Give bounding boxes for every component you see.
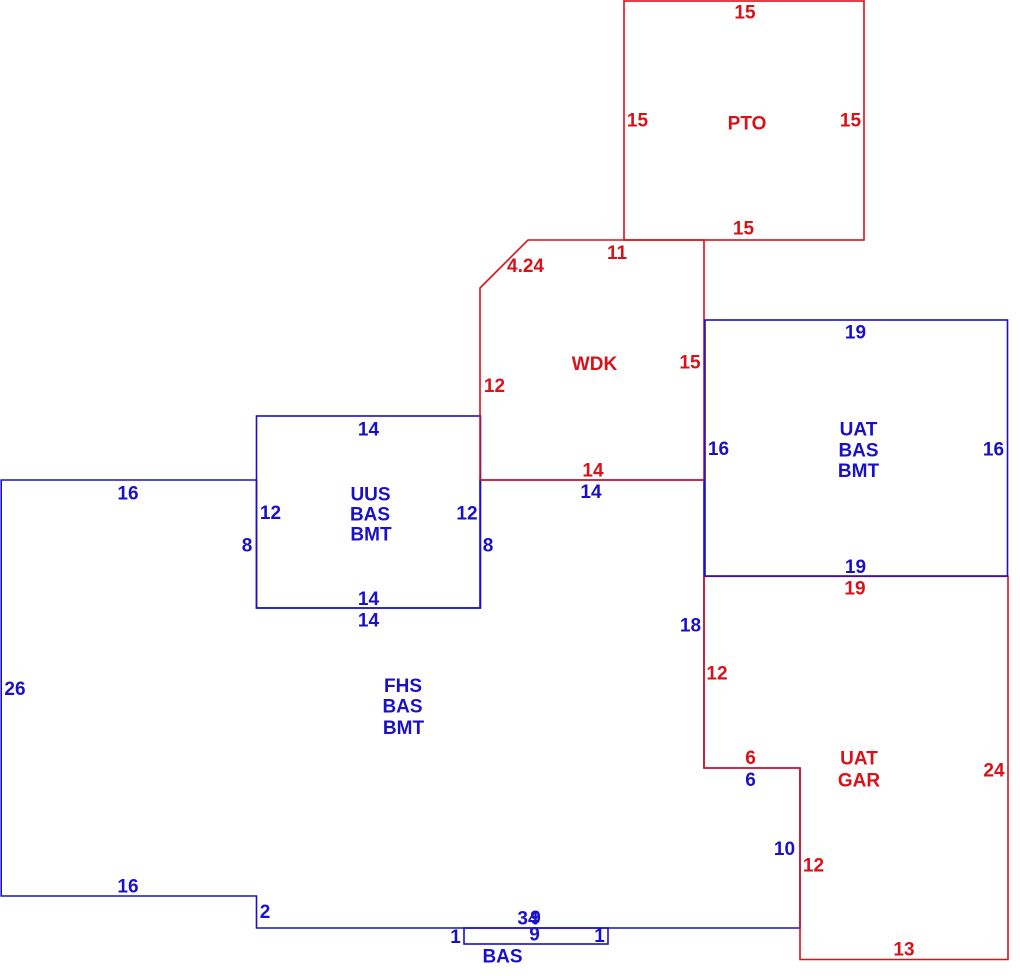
svg-text:19: 19 bbox=[845, 557, 866, 578]
svg-text:12: 12 bbox=[803, 856, 824, 877]
svg-text:9: 9 bbox=[529, 925, 540, 946]
svg-text:12: 12 bbox=[484, 376, 505, 397]
svg-text:BAS: BAS bbox=[838, 440, 878, 461]
svg-text:24: 24 bbox=[983, 761, 1005, 782]
svg-text:12: 12 bbox=[456, 504, 477, 525]
FHS BAS BMT outline bbox=[1, 480, 800, 928]
svg-text:18: 18 bbox=[680, 616, 701, 637]
svg-text:16: 16 bbox=[983, 440, 1004, 461]
svg-text:6: 6 bbox=[745, 770, 756, 791]
svg-text:10: 10 bbox=[774, 839, 795, 860]
svg-text:26: 26 bbox=[4, 679, 25, 700]
svg-text:13: 13 bbox=[893, 940, 914, 961]
svg-text:GAR: GAR bbox=[838, 771, 881, 792]
svg-text:11: 11 bbox=[607, 243, 628, 264]
svg-text:16: 16 bbox=[708, 439, 729, 460]
svg-text:12: 12 bbox=[706, 664, 727, 685]
svg-text:15: 15 bbox=[840, 111, 862, 132]
UAT BAS BMT outline bbox=[705, 320, 1008, 576]
UUS BAS BMT outline bbox=[257, 416, 481, 608]
svg-text:19: 19 bbox=[845, 323, 866, 344]
svg-text:BMT: BMT bbox=[383, 718, 425, 739]
svg-text:16: 16 bbox=[117, 877, 138, 898]
svg-text:BAS: BAS bbox=[382, 697, 422, 718]
svg-text:15: 15 bbox=[733, 219, 755, 240]
svg-text:WDK: WDK bbox=[572, 354, 618, 375]
svg-text:16: 16 bbox=[117, 484, 138, 505]
svg-text:12: 12 bbox=[260, 503, 281, 524]
svg-text:15: 15 bbox=[627, 111, 649, 132]
svg-text:BAS: BAS bbox=[350, 504, 390, 525]
svg-text:1: 1 bbox=[450, 927, 461, 948]
svg-text:14: 14 bbox=[582, 461, 604, 482]
svg-text:2: 2 bbox=[260, 902, 271, 923]
svg-text:15: 15 bbox=[679, 353, 701, 374]
svg-text:BMT: BMT bbox=[350, 524, 392, 545]
svg-text:14: 14 bbox=[358, 589, 380, 610]
svg-text:UAT: UAT bbox=[840, 749, 878, 770]
svg-text:BMT: BMT bbox=[838, 461, 880, 482]
svg-text:4.24: 4.24 bbox=[507, 256, 544, 277]
svg-text:14: 14 bbox=[580, 482, 602, 503]
svg-text:14: 14 bbox=[358, 611, 380, 632]
BAS porch outline bbox=[464, 928, 608, 944]
svg-text:UAT: UAT bbox=[840, 420, 878, 441]
WDK outline bbox=[480, 240, 704, 480]
svg-text:8: 8 bbox=[483, 536, 494, 557]
UAT GAR outline bbox=[704, 576, 1008, 959]
svg-text:1: 1 bbox=[594, 926, 605, 947]
svg-text:BAS: BAS bbox=[482, 947, 522, 968]
svg-text:6: 6 bbox=[745, 748, 756, 769]
svg-text:PTO: PTO bbox=[728, 114, 767, 135]
svg-text:15: 15 bbox=[734, 3, 756, 24]
svg-text:19: 19 bbox=[844, 579, 865, 600]
svg-text:FHS: FHS bbox=[384, 676, 422, 697]
PTO outline bbox=[624, 1, 864, 240]
svg-text:14: 14 bbox=[358, 420, 380, 441]
svg-text:8: 8 bbox=[242, 536, 253, 557]
svg-text:UUS: UUS bbox=[350, 485, 390, 506]
